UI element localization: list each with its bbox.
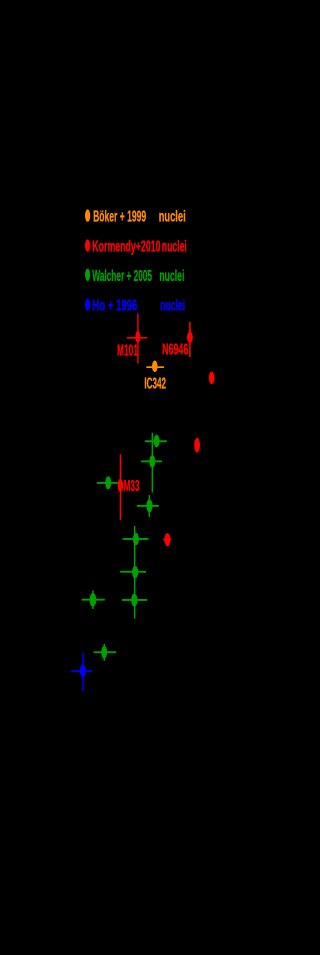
green point P10 horizontal error bar [137, 505, 159, 507]
M101 horizontal error bar [127, 337, 147, 339]
svg-text:nuclei: nuclei [159, 268, 184, 285]
green point P6 horizontal error bar [145, 440, 167, 442]
svg-text:M33: M33 [124, 478, 140, 495]
green data point P16 [101, 646, 107, 659]
green point P14 horizontal error bar [122, 599, 147, 601]
M33 vertical error bar [120, 454, 122, 520]
svg-text:nuclei: nuclei [162, 239, 187, 256]
green point P9 horizontal error bar [97, 482, 118, 484]
IC342 horizontal error bar [146, 366, 164, 368]
green data point P11 [133, 533, 139, 546]
label M33 [124, 478, 140, 495]
red data point P12 [164, 533, 170, 546]
data point NGC6946 [187, 332, 193, 344]
svg-text:Ho + 1996: Ho + 1996 [92, 298, 137, 315]
legend marker Boker+1999 [85, 209, 90, 221]
blue data point P17 [80, 665, 86, 678]
green point P16 vertical error bar [104, 644, 106, 661]
data point M101 [135, 331, 140, 343]
green point P15 vertical error bar [92, 591, 94, 610]
svg-text:N6946: N6946 [162, 342, 188, 359]
svg-text:nuclei: nuclei [159, 209, 186, 226]
green data point P15 [90, 593, 97, 607]
M101 vertical error bar [137, 314, 138, 364]
legend label nuclei row3 [159, 268, 184, 285]
svg-text:nuclei: nuclei [160, 298, 185, 315]
legend marker Ho+1996 [85, 298, 90, 310]
green point P10 vertical error bar [149, 495, 151, 517]
label N6946 [162, 342, 188, 359]
NGC6946 vertical error bar [189, 322, 191, 357]
green data point P10 [146, 499, 152, 512]
legend marker Walcher+2005 [85, 269, 90, 281]
data point IC342 [152, 361, 158, 373]
legend label Walcher + 2005 [92, 268, 152, 285]
legend label Boker + 1999 [93, 209, 146, 226]
green point P15 horizontal error bar [82, 599, 105, 601]
svg-text:Kormendy+2010: Kormendy+2010 [92, 239, 160, 256]
red point P12 horizontal error bar [163, 539, 171, 541]
green point P13 horizontal error bar [120, 571, 146, 573]
legend label nuclei row1 [159, 209, 186, 226]
green data point P14 [131, 594, 137, 607]
svg-text:Böker + 1999: Böker + 1999 [93, 209, 146, 226]
legend marker Kormendy+2010 [85, 239, 90, 251]
green point P16 horizontal error bar [94, 651, 117, 653]
svg-text:IC342: IC342 [144, 375, 166, 392]
green data point P13 [132, 566, 138, 579]
svg-text:Walcher + 2005: Walcher + 2005 [92, 268, 152, 285]
data point M33 [118, 479, 124, 492]
green point P7 horizontal error bar [141, 460, 162, 462]
green chain vertical error bar P11-P13-P14 [134, 526, 136, 619]
green data point P7 [149, 455, 155, 468]
label IC342 [144, 375, 166, 392]
red data point P5 [194, 438, 200, 453]
blue point P17 vertical error bar [82, 653, 84, 692]
legend label nuclei row2 [162, 239, 187, 256]
green point P11 horizontal error bar [123, 538, 149, 540]
red data point P4 [209, 372, 215, 385]
svg-text:M101: M101 [117, 343, 138, 360]
blue point P17 horizontal error bar [71, 670, 93, 672]
green data point P9 [105, 476, 111, 489]
label M101 [117, 343, 138, 360]
legend label nuclei row4 [160, 298, 185, 315]
legend label Ho + 1996 [92, 298, 137, 315]
green point P7 vertical error bar [152, 433, 154, 493]
green data point P6 [154, 435, 160, 448]
legend label Kormendy+2010 [92, 239, 160, 256]
